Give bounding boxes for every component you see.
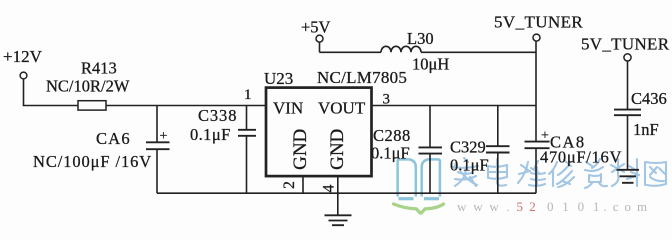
- regulator U23 box: [266, 88, 372, 177]
- pin 2 lead: [302, 177, 304, 193]
- char dian: [488, 159, 507, 186]
- svg-text:VOUT: VOUT: [318, 99, 366, 118]
- capacitor C436 top lead: [627, 61, 629, 110]
- terminal +5V: [316, 35, 323, 42]
- capacitor CA6 top lead: [156, 106, 158, 143]
- svg-text:10μH: 10μH: [412, 55, 449, 74]
- wires and components: [20, 34, 641, 225]
- svg-text:0.1μF: 0.1μF: [190, 125, 231, 144]
- svg-text:+: +: [541, 129, 549, 144]
- wire L30 to 5V_TUNER rail: [421, 51, 536, 53]
- char jia: [453, 158, 478, 186]
- svg-text:GND: GND: [327, 129, 348, 170]
- svg-text:GND: GND: [290, 129, 311, 170]
- svg-text:C338: C338: [198, 106, 237, 125]
- capacitor C338 bottom lead: [246, 136, 248, 193]
- char liao: [611, 159, 639, 186]
- svg-text:+: +: [160, 129, 168, 144]
- watermark green swoosh: [394, 204, 444, 213]
- svg-text:0.1μF: 0.1μF: [371, 144, 410, 163]
- svg-text:3: 3: [383, 92, 391, 108]
- svg-text:C329: C329: [450, 138, 486, 157]
- capacitor CA8 plates: [525, 142, 550, 149]
- terminal 5V_TUNER top: [533, 34, 540, 41]
- capacitor CA6 bottom lead: [156, 149, 158, 193]
- svg-text:U23: U23: [264, 69, 293, 88]
- svg-text:R413: R413: [81, 59, 117, 78]
- char xiu: [549, 160, 574, 187]
- svg-text:+12V: +12V: [3, 47, 43, 66]
- watermark url text: [457, 199, 653, 214]
- 5V_TUNER rail upper segment: [535, 41, 537, 141]
- char wei: [518, 161, 545, 186]
- capacitor C329 plates: [486, 146, 510, 152]
- watermark book logo: [398, 159, 440, 198]
- svg-text:NC/LM7805: NC/LM7805: [317, 68, 407, 87]
- inductor L30 coil: [381, 46, 421, 52]
- wire +12V to resistor R413: [23, 105, 78, 107]
- wire U23 VOUT pin 3 to 5V_TUNER rail: [373, 105, 536, 107]
- ground (right, under C436): [617, 170, 640, 183]
- bottom ground bus wire: [157, 192, 536, 194]
- capacitor C436 plates: [614, 110, 641, 116]
- capacitor C288 plates: [419, 147, 443, 153]
- capacitor C436 bottom lead: [627, 115, 629, 170]
- resistor R413 body: [78, 101, 106, 110]
- svg-text:1: 1: [244, 87, 252, 103]
- svg-text:CA6: CA6: [96, 129, 131, 148]
- ground (center): [325, 215, 352, 225]
- svg-text:1nF: 1nF: [633, 120, 659, 139]
- wire +5V to inductor L30: [320, 51, 382, 53]
- wire resistor to U23 VIN pin 1: [106, 105, 265, 107]
- watermark chinese characters (stylized): [453, 158, 666, 188]
- capacitor C329 top lead: [497, 106, 499, 147]
- char zi: [585, 159, 607, 188]
- wire +5V terminal down: [319, 42, 321, 52]
- svg-text:NC/100μF /16V: NC/100μF /16V: [33, 152, 152, 171]
- capacitor CA6 plates: [146, 142, 170, 149]
- svg-text:0.1μF: 0.1μF: [450, 156, 489, 175]
- wire from +12V terminal down: [23, 79, 25, 106]
- svg-text:L30: L30: [407, 29, 434, 48]
- capacitor C329 bottom lead: [497, 153, 499, 194]
- svg-text:2: 2: [281, 181, 298, 189]
- svg-text:C288: C288: [373, 126, 411, 145]
- svg-text:4: 4: [321, 184, 338, 192]
- capacitor C288 top lead: [429, 106, 431, 148]
- 5V_TUNER rail lower segment: [535, 148, 537, 193]
- capacitor C338 top lead: [246, 106, 248, 130]
- char wang: [645, 162, 666, 186]
- capacitor C338 plates: [238, 130, 256, 136]
- svg-text:+5V: +5V: [301, 18, 331, 37]
- terminal +12V: [20, 72, 27, 79]
- svg-text:5V_TUNER: 5V_TUNER: [494, 13, 583, 32]
- svg-text:NC/10R/2W: NC/10R/2W: [46, 77, 130, 96]
- pin 4 lead to ground: [337, 177, 339, 216]
- capacitor C288 bottom lead: [429, 154, 431, 194]
- svg-text:www.520101.com: www.520101.com: [457, 199, 653, 214]
- svg-text:470μF/16V: 470μF/16V: [540, 148, 622, 167]
- terminal 5V_TUNER right: [624, 54, 631, 61]
- svg-text:5V_TUNER: 5V_TUNER: [581, 35, 670, 54]
- svg-text:C436: C436: [631, 89, 667, 108]
- svg-text:VIN: VIN: [273, 99, 303, 118]
